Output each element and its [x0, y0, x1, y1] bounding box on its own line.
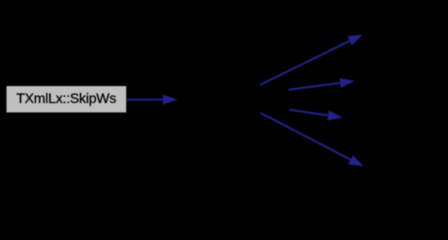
arrowhead E4 [348, 155, 363, 166]
node TXmlLx::SkipWs [7, 86, 127, 112]
arrowhead E1 [348, 35, 363, 46]
edge E1: middle node to hidden node 1 (wire) [260, 41, 350, 85]
edge E0: SkipWs to hidden middle node (wire) [127, 99, 163, 101]
edge E3: middle node to hidden node 3 (wire) [290, 110, 329, 116]
arrowhead E0 [163, 95, 178, 105]
edge E4: middle node to hidden node 4 (wire) [261, 113, 351, 160]
arrowhead E3 [327, 111, 342, 121]
arrowhead E2 [340, 78, 355, 88]
svg-text:TXmlLx::SkipWs: TXmlLx::SkipWs [16, 90, 116, 106]
edge E2: middle node to hidden node 2 (wire) [289, 83, 341, 90]
